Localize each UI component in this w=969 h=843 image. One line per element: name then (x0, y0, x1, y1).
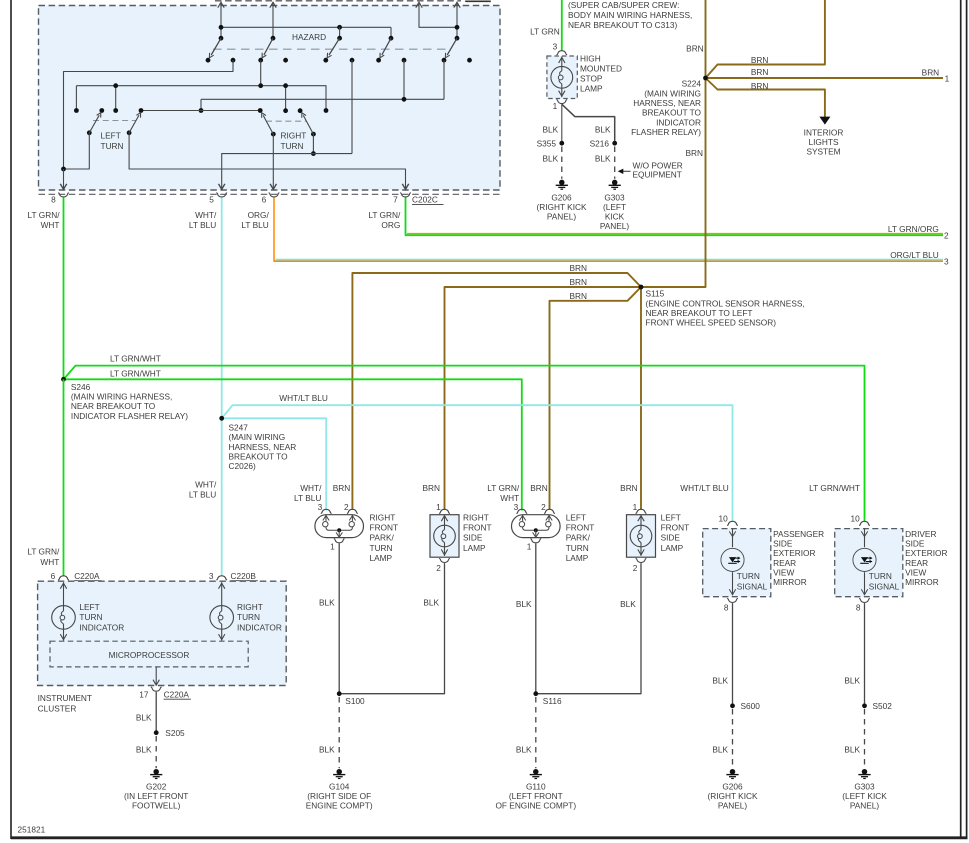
svg-text:SIDE: SIDE (463, 533, 483, 543)
wire BLK passenger mirror to S600 (732, 603, 734, 703)
svg-text:G206: G206 (722, 781, 743, 791)
svg-text:LT GRN/WHT: LT GRN/WHT (110, 354, 161, 364)
pin 2 left side lamp (636, 559, 647, 563)
wire right-turn arm2 drop (312, 134, 314, 154)
wire BLK right side lamp to S100 (339, 563, 444, 694)
junction dot top bus x457 (455, 25, 460, 30)
wire pin8 exit (63, 169, 65, 188)
right front park/turn lamp (315, 515, 364, 538)
pin 17 C220A (151, 687, 162, 691)
left turn gang dashed line (93, 120, 136, 122)
hazard pole 3 pivot (337, 36, 342, 41)
hazard pole 5 pivot (455, 36, 460, 41)
wire arrow exiting top at x273 (272, 4, 274, 39)
svg-text:2: 2 (633, 563, 638, 573)
svg-text:BLK: BLK (595, 154, 611, 164)
svg-text:BRN: BRN (333, 483, 351, 493)
svg-text:2: 2 (541, 502, 546, 512)
svg-text:SIGNAL: SIGNAL (737, 581, 768, 591)
wire contact260 drop (260, 60, 262, 85)
svg-text:LAMP: LAMP (463, 543, 486, 553)
svg-text:INDICATOR: INDICATOR (237, 622, 282, 632)
svg-text:S224: S224 (682, 79, 702, 89)
wire arrow exiting top at x419 (419, 4, 457, 28)
svg-text:TURN: TURN (237, 612, 260, 622)
wire BLK driver mirror to S502 (864, 603, 866, 703)
svg-text:WHT/LT BLU: WHT/LT BLU (279, 393, 328, 403)
svg-text:INDICATOR FLASHER RELAY): INDICATOR FLASHER RELAY) (71, 411, 188, 421)
wire bus y99 left step (200, 99, 202, 110)
hazard pole 3 left contact (323, 58, 328, 63)
wire drop x285 (285, 86, 287, 111)
hazard pole 2 left contact (258, 58, 263, 63)
svg-text:BRN: BRN (422, 483, 440, 493)
wire LT GRN from top to stop lamp (561, 0, 563, 51)
wire BRN to right front side lamp (445, 287, 642, 510)
svg-text:3: 3 (553, 41, 558, 51)
svg-text:C220A: C220A (74, 571, 100, 581)
svg-text:BLK: BLK (712, 745, 728, 755)
wire BLK dashed S355 to G206 (561, 147, 563, 179)
ground G202 (153, 769, 159, 775)
svg-text:S247: S247 (229, 423, 249, 433)
svg-text:BLK: BLK (844, 675, 860, 685)
svg-text:BREAKOUT TO: BREAKOUT TO (642, 108, 702, 118)
page frame bottom border (11, 836, 968, 839)
wire bus y85.7 (76, 86, 326, 111)
svg-text:(RIGHT KICK: (RIGHT KICK (536, 202, 587, 212)
svg-text:SIDE: SIDE (773, 539, 793, 549)
left front side lamp bulb (640, 515, 642, 526)
instrument cluster box (38, 581, 287, 685)
svg-text:1: 1 (436, 502, 441, 512)
svg-text:TURN: TURN (370, 543, 393, 553)
svg-text:17: 17 (139, 689, 149, 699)
svg-text:RIGHT: RIGHT (281, 131, 307, 141)
svg-text:EXTERIOR: EXTERIOR (773, 548, 815, 558)
svg-text:LT GRN/: LT GRN/ (28, 210, 61, 220)
splice S246 (61, 377, 66, 382)
splice S600 (730, 703, 735, 708)
svg-text:MOUNTED: MOUNTED (580, 64, 622, 74)
svg-text:INDICATOR: INDICATOR (656, 117, 701, 127)
svg-text:BRN: BRN (686, 44, 704, 54)
svg-text:TURN: TURN (737, 571, 760, 581)
svg-text:G206: G206 (551, 192, 572, 202)
right front side lamp bulb (444, 515, 446, 526)
wire contact352 drop to pin5 bus (351, 60, 353, 153)
wire BRN branch 3 to interior lights (706, 78, 825, 117)
svg-text:PASSENGER: PASSENGER (773, 529, 824, 539)
svg-text:S115: S115 (646, 289, 665, 299)
left front side lamp box (627, 515, 656, 558)
svg-text:1: 1 (633, 502, 638, 512)
svg-text:DRIVER: DRIVER (905, 529, 936, 539)
svg-text:S205: S205 (165, 728, 185, 738)
svg-text:INSTRUMENT: INSTRUMENT (38, 693, 92, 703)
splice S247 (219, 416, 224, 421)
svg-text:WHT/: WHT/ (195, 480, 217, 490)
wire contact233 to pin8 drop (64, 60, 234, 169)
svg-text:LT GRN/WHT: LT GRN/WHT (809, 483, 860, 493)
splice S100 (337, 691, 342, 696)
hazard pole 4 switch arm (382, 38, 391, 55)
wire ORG/LT BLU pin6 to right edge 3 (274, 198, 943, 262)
svg-text:BLK: BLK (423, 598, 439, 608)
svg-text:NEAR BREAKOUT TO C313): NEAR BREAKOUT TO C313) (568, 20, 678, 30)
svg-text:VIEW: VIEW (773, 567, 794, 577)
svg-text:5: 5 (209, 194, 214, 204)
svg-text:BLK: BLK (595, 124, 611, 134)
svg-text:LT GRN: LT GRN (530, 26, 560, 36)
svg-text:SIDE: SIDE (661, 533, 681, 543)
wire stop lamp to S355 (561, 104, 563, 141)
svg-text:WHT: WHT (40, 557, 59, 567)
svg-text:SYSTEM: SYSTEM (806, 147, 840, 157)
svg-text:C2026): C2026) (229, 461, 256, 471)
pin 5 connector bump (216, 193, 227, 197)
svg-text:(RIGHT KICK: (RIGHT KICK (707, 791, 758, 801)
svg-text:S116: S116 (543, 696, 562, 706)
svg-text:S600: S600 (741, 701, 761, 711)
wire BLK dashed S100 to G104 (338, 697, 340, 768)
svg-text:BLK: BLK (319, 745, 335, 755)
right turn indicator lamp (221, 582, 223, 605)
hazard pole 1 switch arm (211, 38, 221, 55)
svg-text:EXTERIOR: EXTERIOR (905, 548, 947, 558)
svg-text:TURN: TURN (79, 612, 102, 622)
svg-text:C220B: C220B (231, 571, 257, 581)
right turn switch arm 2 (311, 132, 316, 137)
hazard pole 4 pivot (389, 36, 394, 41)
pin 1 right park lamp (334, 539, 345, 543)
ground G110 (533, 769, 539, 775)
hazard pole 2 right contact (283, 58, 288, 63)
svg-text:C220A: C220A (164, 689, 190, 699)
hazard pole 2 pivot (271, 36, 276, 41)
svg-text:6: 6 (51, 571, 56, 581)
page frame right inner border (960, 0, 962, 839)
svg-text:8: 8 (51, 194, 56, 204)
passenger side mirror turn signal (703, 529, 771, 597)
svg-text:PARK/: PARK/ (370, 533, 395, 543)
svg-text:WHT/: WHT/ (300, 483, 322, 493)
svg-text:BREAKOUT TO: BREAKOUT TO (229, 451, 289, 461)
svg-text:KICK: KICK (605, 212, 625, 222)
svg-text:S100: S100 (345, 696, 365, 706)
svg-text:BRN: BRN (530, 483, 548, 493)
high mounted stop lamp U-lamp box (547, 56, 577, 99)
pin 6 connector bump (269, 193, 280, 197)
stop lamp bottom bump (556, 100, 567, 104)
svg-text:1: 1 (527, 542, 532, 552)
splice S115 (639, 285, 644, 290)
wire LT GRN/ORG yellow stripe (407, 233, 943, 235)
wire LT GRN/ORG pin7 to right edge 2 (406, 198, 944, 236)
svg-text:BRN: BRN (922, 68, 940, 78)
hazard pole 1 pivot (219, 36, 224, 41)
connector line C202C (39, 193, 501, 195)
svg-text:BRN: BRN (569, 263, 587, 273)
svg-text:INDICATOR: INDICATOR (79, 622, 124, 632)
svg-text:BLK: BLK (543, 154, 559, 164)
svg-text:(RIGHT SIDE OF: (RIGHT SIDE OF (307, 791, 371, 801)
wire arrow exiting top at x457 (456, 4, 458, 39)
ground G104 (336, 769, 342, 775)
right turn gang dashed line (266, 120, 306, 122)
wire drop x115 (115, 86, 117, 111)
svg-text:FRONT: FRONT (370, 523, 399, 533)
wire BLK left side lamp to S116 (536, 563, 641, 694)
wire WHT/LT BLU lower run to right park lamp (222, 418, 327, 510)
wire WHT/LT BLU pin5 down to S247 and C220B (221, 198, 223, 577)
pin 8 passenger mirror (727, 599, 738, 603)
wire bus y99 (201, 98, 444, 100)
svg-text:BLK: BLK (620, 599, 636, 609)
wire arrow exiting top at x221 (220, 4, 222, 39)
wire left-turn arm2 to pin7 (129, 133, 405, 188)
svg-text:C202C: C202C (412, 195, 438, 205)
splice S116 (533, 691, 538, 696)
wire BLK right park lamp to S100 (338, 543, 340, 691)
wire BRN to right front park lamp (352, 273, 641, 510)
wire microprocessor output (155, 667, 157, 684)
svg-text:HAZARD: HAZARD (292, 32, 326, 42)
wire BLK dashed S116 to G110 (535, 697, 537, 768)
svg-text:1: 1 (553, 101, 558, 111)
pin 8 driver mirror (859, 599, 870, 603)
splice S355 (559, 141, 564, 146)
svg-text:(ENGINE CONTROL SENSOR HARNESS: (ENGINE CONTROL SENSOR HARNESS, (646, 298, 805, 308)
svg-text:(SUPER CAB/SUPER CREW:: (SUPER CAB/SUPER CREW: (568, 0, 679, 10)
svg-text:BRN: BRN (685, 148, 703, 158)
splice S216 (612, 141, 617, 146)
hazard pole 5 left contact (442, 58, 447, 63)
svg-text:(IN LEFT FRONT: (IN LEFT FRONT (124, 791, 188, 801)
svg-text:(LEFT FRONT: (LEFT FRONT (509, 791, 563, 801)
wire BLK dashed S502 to G303 (864, 709, 866, 768)
svg-text:VIEW: VIEW (905, 567, 926, 577)
svg-text:BLK: BLK (712, 675, 728, 685)
svg-text:FOOTWELL): FOOTWELL) (132, 801, 181, 811)
junction dot x326 y110 (324, 108, 329, 113)
wire contact404 drop (403, 60, 405, 99)
svg-text:MIRROR: MIRROR (773, 577, 807, 587)
junction dot top bus x221 (219, 25, 224, 30)
wire right-turn arm1 to pin6 (272, 134, 274, 188)
wire contact444 drop (443, 60, 445, 99)
turn-hazard switch assembly box (39, 6, 501, 191)
wire left-turn arm1 to pin8 (64, 133, 90, 169)
ground G206 (stop lamp) (559, 180, 565, 186)
svg-text:(LEFT KICK: (LEFT KICK (842, 791, 887, 801)
svg-text:TURN: TURN (101, 141, 124, 151)
right front side lamp box (430, 515, 459, 558)
note W/O POWER EQUIPMENT (623, 170, 631, 172)
wire pin5 bus (222, 154, 352, 189)
pin 7 connector bump (400, 193, 411, 197)
svg-text:BRN: BRN (751, 55, 769, 65)
svg-text:LEFT: LEFT (79, 602, 99, 612)
svg-text:NEAR BREAKOUT TO LEFT: NEAR BREAKOUT TO LEFT (646, 308, 753, 318)
svg-text:FLASHER RELAY): FLASHER RELAY) (631, 127, 701, 137)
left turn contact b (139, 108, 144, 113)
wire BLK dashed S205 to G202 (155, 736, 157, 768)
wire LT GRN/WHT S246 down to cluster (63, 379, 65, 576)
svg-text:2: 2 (436, 563, 441, 573)
hazard pole 1 right contact (231, 58, 236, 63)
svg-text:8: 8 (856, 602, 861, 612)
svg-text:S502: S502 (873, 701, 893, 711)
hazard pole 5 switch arm (447, 38, 457, 55)
svg-text:3: 3 (944, 257, 949, 267)
svg-text:HARNESS, NEAR: HARNESS, NEAR (229, 442, 297, 452)
svg-text:REAR: REAR (905, 558, 928, 568)
svg-text:BLK: BLK (543, 124, 559, 134)
wire LT GRN/WHT pin8 down to S246 (63, 198, 65, 378)
svg-text:3: 3 (209, 571, 214, 581)
svg-text:2: 2 (944, 231, 949, 241)
svg-text:CLUSTER: CLUSTER (38, 703, 77, 713)
svg-text:FRONT WHEEL SPEED SENSOR): FRONT WHEEL SPEED SENSOR) (646, 318, 777, 328)
wire stop lamp branch to S216 (562, 104, 615, 141)
wire BRN to left front park lamp (550, 287, 642, 510)
left front park/turn lamp (512, 515, 561, 538)
svg-text:S355: S355 (537, 139, 557, 149)
svg-text:WHT/LT BLU: WHT/LT BLU (680, 483, 729, 493)
svg-text:BLK: BLK (516, 599, 532, 609)
left turn indicator lamp (63, 582, 65, 605)
svg-text:G202: G202 (146, 781, 167, 791)
svg-text:LT GRN/: LT GRN/ (487, 483, 520, 493)
svg-text:(MAIN WIRING: (MAIN WIRING (644, 88, 701, 98)
svg-text:FRONT: FRONT (566, 523, 595, 533)
svg-text:8: 8 (724, 602, 729, 612)
wire BLK dashed S600 to G206 (732, 709, 734, 768)
wire BRN branch 2 to right edge 1 (706, 77, 944, 79)
wire bus y110 (141, 110, 260, 112)
wire BLK pin17 to S205 (155, 692, 157, 731)
driver side mirror turn signal (835, 529, 903, 597)
wire ORG/LT BLU cyan stripe (276, 259, 944, 261)
svg-text:G110: G110 (526, 781, 546, 791)
svg-text:PARK/: PARK/ (566, 533, 591, 543)
left turn switch arm 2 (127, 130, 132, 135)
right turn switch arm 1 (271, 132, 276, 137)
svg-text:WHT: WHT (41, 220, 60, 230)
svg-text:FRONT: FRONT (463, 523, 492, 533)
svg-text:LEFT: LEFT (566, 512, 586, 522)
svg-text:RIGHT: RIGHT (463, 512, 489, 522)
svg-text:3: 3 (514, 502, 519, 512)
svg-text:HIGH: HIGH (580, 54, 601, 64)
hazard pole 4 left contact (376, 58, 381, 63)
hazard switch gang dashed line (213, 48, 451, 50)
ground G303 (stop lamp) (612, 180, 618, 186)
svg-text:SIDE: SIDE (905, 539, 925, 549)
high mounted stop lamp bulb (561, 57, 563, 67)
wire BLK dashed S216 to G303 (614, 147, 616, 179)
svg-text:LT GRN/ORG: LT GRN/ORG (888, 224, 939, 234)
svg-text:7: 7 (393, 194, 398, 204)
svg-text:2: 2 (344, 502, 349, 512)
svg-text:1: 1 (330, 542, 335, 552)
wire drop x76 (75, 86, 77, 111)
right turn contact a (258, 108, 263, 113)
svg-text:MICROPROCESSOR: MICROPROCESSOR (109, 650, 190, 660)
svg-text:BLK: BLK (844, 745, 860, 755)
cut-off connector label underline top right (465, 0, 491, 2)
svg-text:S246: S246 (71, 382, 91, 392)
svg-text:PANEL): PANEL) (850, 801, 880, 811)
svg-text:BRN: BRN (751, 81, 769, 91)
svg-text:LAMP: LAMP (566, 553, 589, 563)
svg-text:S216: S216 (590, 139, 610, 149)
hazard pole 5 right contact (467, 58, 472, 63)
svg-text:PANEL): PANEL) (718, 801, 748, 811)
svg-text:RIGHT: RIGHT (370, 512, 396, 522)
svg-text:LT GRN/: LT GRN/ (368, 210, 401, 220)
right turn contact b (298, 108, 303, 113)
svg-text:LEFT: LEFT (101, 131, 121, 141)
svg-text:BRN: BRN (751, 67, 769, 77)
wire WHT/LT BLU upper run to passenger mirror (222, 405, 733, 522)
svg-text:ORG/: ORG/ (248, 210, 270, 220)
wire LT GRN/WHT upper run to driver mirror (64, 366, 865, 522)
svg-text:G303: G303 (604, 192, 625, 202)
wire BRN S115 down to left front side lamp (640, 287, 642, 510)
svg-text:RIGHT: RIGHT (237, 602, 263, 612)
svg-text:LT GRN/WHT: LT GRN/WHT (110, 368, 161, 378)
svg-text:MIRROR: MIRROR (905, 577, 939, 587)
svg-text:G303: G303 (854, 781, 875, 791)
svg-text:LT GRN/: LT GRN/ (27, 547, 60, 557)
page frame right outer border (966, 0, 968, 839)
svg-text:BLK: BLK (136, 745, 152, 755)
svg-text:LAMP: LAMP (370, 553, 393, 563)
svg-text:ENGINE COMPT): ENGINE COMPT) (306, 801, 373, 811)
svg-text:BRN: BRN (569, 291, 587, 301)
svg-text:BRN: BRN (569, 277, 587, 287)
svg-text:LT BLU: LT BLU (189, 220, 216, 230)
svg-text:PANEL): PANEL) (547, 212, 577, 222)
svg-text:3: 3 (318, 502, 323, 512)
hazard pole 3 right contact (350, 58, 355, 63)
stop lamp connector bump (556, 51, 567, 55)
junction dot top bus x339 (337, 25, 342, 30)
svg-text:(MAIN WIRING HARNESS,: (MAIN WIRING HARNESS, (71, 392, 172, 402)
svg-text:SIGNAL: SIGNAL (869, 581, 900, 591)
svg-text:PANEL): PANEL) (600, 221, 630, 231)
splice S224 (703, 76, 708, 81)
hazard pole 2 switch arm (264, 38, 273, 55)
wire BRN branch 1 to top right (706, 0, 825, 78)
junction dot pin8 wire (61, 167, 66, 172)
left turn switch arm 1 (87, 130, 92, 135)
wire pole4 riser (390, 27, 392, 38)
pin 8 connector bump (58, 193, 69, 197)
splice S205 (154, 730, 159, 735)
svg-text:LT BLU: LT BLU (241, 220, 268, 230)
hazard pole 1 left contact (206, 58, 211, 63)
page frame left border (10, 0, 12, 839)
svg-text:(LEFT: (LEFT (603, 202, 626, 212)
svg-text:10: 10 (850, 514, 860, 524)
hazard pole 4 right contact (402, 58, 407, 63)
svg-text:BODY MAIN WIRING HARNESS,: BODY MAIN WIRING HARNESS, (568, 10, 692, 20)
svg-text:REAR: REAR (773, 558, 796, 568)
svg-text:STOP: STOP (580, 74, 603, 84)
